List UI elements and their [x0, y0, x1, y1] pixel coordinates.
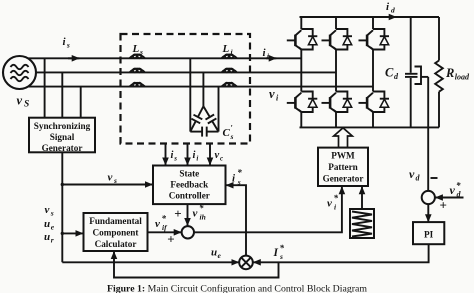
svg-text:Feedback: Feedback [170, 180, 209, 190]
svg-text:s: s [113, 176, 117, 185]
svg-text:r: r [51, 236, 54, 245]
svg-text:S: S [24, 100, 29, 110]
svg-text:v: v [450, 183, 456, 197]
svg-text:R: R [445, 66, 454, 80]
svg-text:v: v [193, 208, 198, 220]
svg-text:Signal: Signal [50, 132, 75, 142]
svg-text:Synchronizing: Synchronizing [34, 121, 91, 131]
svg-text:Generator: Generator [323, 174, 364, 184]
svg-text:State: State [179, 169, 199, 179]
svg-text:*: * [162, 214, 167, 224]
svg-text:i: i [171, 150, 174, 161]
svg-text:s: s [139, 48, 143, 57]
svg-text:v: v [409, 167, 415, 181]
svg-text:s: s [237, 178, 241, 187]
svg-text:v: v [108, 172, 113, 184]
svg-text:v: v [327, 198, 332, 210]
svg-text:v: v [17, 94, 23, 108]
svg-text:L: L [132, 43, 140, 55]
svg-text:d: d [391, 6, 395, 15]
svg-text:u: u [44, 231, 50, 243]
svg-text:*: * [334, 193, 339, 203]
svg-text:+: + [440, 198, 447, 213]
svg-text:s: s [173, 155, 177, 163]
svg-text:+: + [167, 231, 174, 246]
svg-text:C: C [385, 66, 394, 80]
svg-text:I: I [273, 247, 279, 259]
svg-text:PWM: PWM [331, 151, 355, 161]
svg-text:*: * [199, 203, 204, 213]
svg-text:+: + [174, 206, 181, 221]
svg-text:s: s [50, 209, 54, 218]
svg-text:v: v [269, 87, 275, 101]
svg-text:u: u [44, 218, 50, 230]
svg-text:u: u [211, 247, 217, 259]
svg-text:Controller: Controller [169, 191, 210, 201]
svg-text:Pattern: Pattern [328, 162, 358, 172]
svg-text:PI: PI [424, 230, 434, 240]
svg-text:v: v [155, 218, 160, 230]
svg-text:*: * [237, 168, 242, 178]
svg-text:v: v [45, 204, 50, 216]
svg-text:s: s [279, 252, 283, 261]
svg-text:C: C [223, 127, 231, 139]
svg-text:s: s [230, 132, 234, 141]
svg-text:v: v [215, 150, 220, 161]
svg-text:Figure 1: Main Circuit Configu: Figure 1: Main Circuit Configuration and… [107, 283, 367, 293]
svg-text:s: s [66, 41, 70, 50]
svg-text:Fundamental: Fundamental [89, 216, 142, 226]
svg-text:i: i [193, 150, 196, 161]
svg-text:Generator: Generator [42, 143, 83, 153]
svg-text:ih: ih [200, 213, 206, 222]
svg-text:Calculator: Calculator [95, 239, 137, 249]
svg-text:Component: Component [93, 228, 140, 238]
svg-text:*: * [456, 181, 461, 191]
svg-text:L: L [222, 43, 230, 55]
svg-text:i: i [196, 155, 198, 163]
svg-text:c: c [220, 155, 223, 163]
svg-text:load: load [455, 73, 470, 82]
